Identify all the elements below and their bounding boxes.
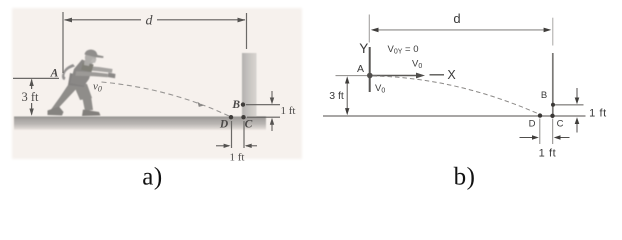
left arrow [216, 145, 229, 147]
neck [84, 60, 90, 66]
svg-text:V0: V0 [375, 83, 385, 95]
dimension d (figure a): right extension line [246, 13, 248, 49]
svg-text:b): b) [454, 164, 476, 191]
point C dot (figure a) [241, 115, 245, 119]
svg-text:d: d [146, 14, 154, 29]
wall post (figure a) [242, 53, 257, 117]
origin dot A (figure b) [367, 73, 373, 79]
face shade [91, 59, 97, 64]
extension below C [552, 119, 554, 145]
front leg shin [82, 96, 93, 111]
svg-text:3 ft: 3 ft [21, 90, 39, 104]
svg-text:Y: Y [359, 41, 368, 56]
dimension 1 ft vertical (figure a): C level line [247, 116, 280, 118]
left arrow [520, 137, 538, 139]
dimension d (figure a): left extension line [62, 12, 64, 73]
dimension d (figure b): left extension line [368, 15, 370, 43]
head face [85, 52, 96, 64]
front leg thigh [72, 81, 92, 100]
ground line (figure b) [323, 115, 586, 117]
3 ft dimension (figure b) [346, 79, 348, 113]
3 ft extension line at A level (figure b) [336, 75, 368, 77]
cap [85, 50, 104, 59]
person throwing ball (figure a) [48, 50, 116, 117]
sleeve shoulder [81, 63, 94, 73]
svg-text:V0: V0 [412, 59, 422, 71]
torso shirt [70, 60, 94, 87]
svg-text:D: D [529, 119, 536, 130]
right arrow [246, 145, 257, 147]
X axis with V0 arrow (figure b) [372, 75, 421, 77]
point D dot (figure a) [229, 115, 233, 119]
back leg [51, 82, 79, 110]
hand [108, 73, 116, 79]
point D dot (figure b) [538, 113, 542, 117]
svg-text:A: A [50, 68, 59, 80]
svg-text:a): a) [142, 164, 162, 191]
svg-text:1 ft: 1 ft [281, 105, 296, 117]
point B dot (figure b) [551, 103, 555, 107]
trajectory arrowhead (figure a) [198, 102, 204, 107]
dimension 1 ft horizontal (figure a): extension below D [231, 121, 233, 148]
front foot [82, 110, 101, 117]
svg-text:3 ft: 3 ft [329, 90, 344, 102]
dimension 3 ft (figure a): vertical line + arrows [31, 80, 33, 90]
up arrow [271, 119, 273, 131]
svg-text:C: C [557, 119, 564, 130]
trailing arm curving down [62, 64, 75, 80]
1 ft vertical dimension (figure b): up arrow [576, 119, 578, 133]
right arrow [556, 137, 570, 139]
1 ft horizontal dimension (figure b): extension below D [539, 119, 541, 145]
ground top edge line (figure a) [14, 116, 266, 118]
lower arm bar [76, 71, 109, 77]
dimension 3 ft (figure a): extension line at A level [13, 77, 59, 79]
wall line (figure b) [552, 53, 554, 116]
Y axis (figure b) [369, 47, 371, 92]
svg-text:1 ft: 1 ft [230, 152, 245, 164]
svg-text:V0Y = 0: V0Y = 0 [388, 44, 419, 56]
dimension d (figure b): dimension line [373, 29, 550, 31]
point B dot (figure a) [241, 102, 245, 106]
upper arm bar [86, 66, 113, 73]
dimension 1 ft vertical (figure a): B level line [246, 104, 280, 106]
svg-text:C: C [245, 119, 253, 131]
svg-text:1 ft: 1 ft [539, 148, 557, 160]
1 ft vertical dimension (figure b): down arrow [576, 88, 578, 103]
B level line (figure b) [555, 104, 584, 106]
dimension d (figure a): dimension line with arrows [65, 19, 142, 21]
dimension 1 ft horizontal (figure a): extension below C [243, 121, 245, 148]
figure a) scanned pink panel background [12, 8, 302, 159]
back foot [48, 107, 64, 116]
svg-text:B: B [541, 90, 547, 101]
dimension d (figure b): right extension line [552, 18, 554, 46]
hips [68, 73, 85, 87]
svg-text:B: B [231, 99, 240, 111]
down arrow [271, 91, 273, 103]
svg-text:X: X [447, 68, 456, 82]
svg-text:D: D [219, 119, 229, 131]
trajectory dashed curve (figure a) [102, 82, 232, 117]
svg-text:1 ft: 1 ft [589, 108, 607, 120]
ground strip (figure a) [14, 117, 266, 131]
point C dot (figure b) [550, 114, 554, 118]
svg-text:d: d [453, 11, 460, 26]
trajectory dashed curve (figure b) [373, 76, 541, 115]
svg-text:A: A [357, 63, 364, 75]
